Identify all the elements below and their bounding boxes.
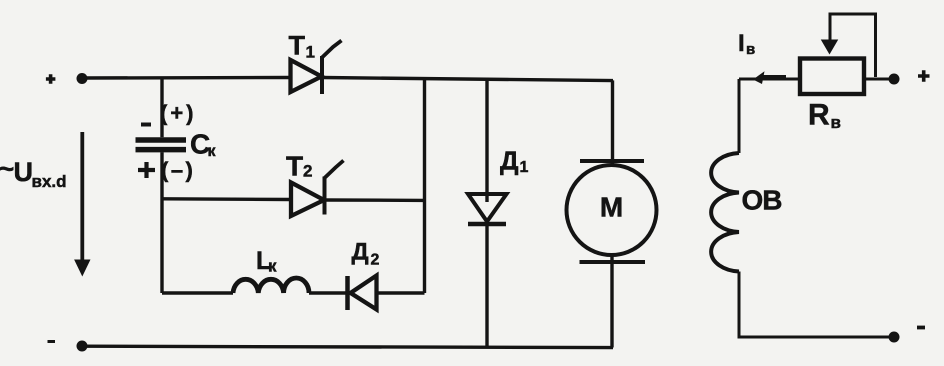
svg-text:вх.d: вх.d: [32, 172, 67, 191]
svg-text:Д: Д: [352, 239, 369, 266]
svg-text:(–): (–): [161, 158, 195, 183]
svg-text:M: M: [600, 192, 623, 223]
svg-text:~: ~: [0, 154, 14, 184]
svg-text:T: T: [289, 31, 306, 61]
svg-text:2: 2: [371, 252, 380, 269]
svg-text:1: 1: [306, 43, 315, 62]
svg-text:в: в: [746, 41, 755, 58]
svg-text:в: в: [831, 113, 841, 132]
svg-text:(+): (+): [160, 101, 197, 126]
svg-text:ОВ: ОВ: [742, 185, 782, 216]
svg-text:R: R: [808, 99, 830, 132]
svg-text:U: U: [14, 157, 34, 187]
svg-text:Д: Д: [500, 146, 519, 176]
svg-text:2: 2: [303, 162, 312, 181]
svg-text:к: к: [268, 257, 277, 276]
svg-text:1: 1: [520, 159, 529, 176]
svg-text:T: T: [286, 151, 303, 182]
svg-text:к: к: [208, 143, 217, 160]
svg-text:I: I: [738, 30, 745, 57]
